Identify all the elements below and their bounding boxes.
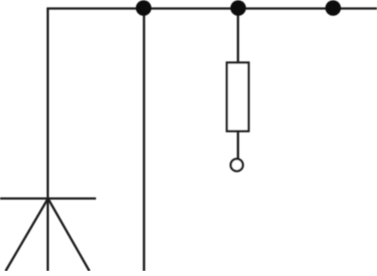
junction node B bbox=[230, 0, 246, 16]
wire top horizontal bus bbox=[47, 7, 377, 9]
wire vertical from node A down bbox=[143, 9, 145, 272]
terminal pin circle bbox=[231, 159, 243, 171]
wire diagonal down-left bbox=[6, 199, 48, 272]
wire resistor to terminal bbox=[237, 131, 239, 158]
resistor body bbox=[227, 63, 249, 132]
wire left vertical bbox=[47, 9, 49, 272]
junction node A bbox=[136, 0, 152, 16]
wire horizontal at crossing bbox=[0, 197, 96, 199]
wire vertical into resistor bbox=[237, 9, 239, 64]
wire diagonal down-right bbox=[48, 199, 89, 272]
junction node C bbox=[325, 0, 341, 16]
